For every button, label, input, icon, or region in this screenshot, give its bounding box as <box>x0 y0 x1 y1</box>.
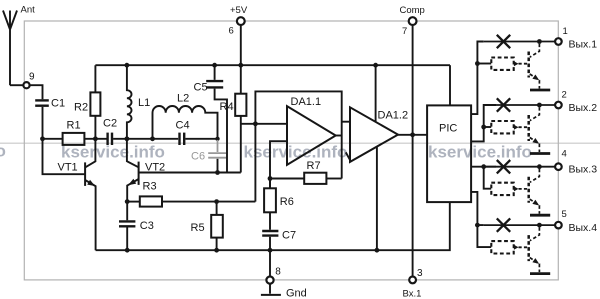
svg-text:1: 1 <box>563 26 568 37</box>
node rail C5 <box>212 63 217 68</box>
svg-text:Вых.3: Вых.3 <box>569 164 598 176</box>
svg-text:DA1.2: DA1.2 <box>378 109 409 121</box>
node R5/rail <box>214 248 219 253</box>
node channel 2 optobox tap <box>481 125 486 130</box>
svg-text:o: o <box>0 142 6 161</box>
node VT2 emitter / R3 / C3 <box>125 199 130 204</box>
wire PIC Vdd top pin <box>449 65 451 105</box>
resistor R7 <box>270 160 342 184</box>
svg-text:kservice.info: kservice.info <box>428 143 532 162</box>
node rail DA1.2 Vee <box>375 248 380 253</box>
wire Gnd branch <box>269 250 271 276</box>
node R7 left junction <box>268 176 273 181</box>
resistor R5 <box>191 202 223 251</box>
wire DA1.1 feedback top <box>255 91 341 201</box>
wire PIC pin to channel 1 <box>471 42 484 115</box>
svg-text:R4: R4 <box>220 101 234 113</box>
svg-text:9: 9 <box>29 72 35 83</box>
node rail L1 <box>125 63 130 68</box>
svg-text:Вых.1: Вых.1 <box>569 38 598 50</box>
wire DA1.2 output <box>398 134 427 136</box>
node R3/R5 <box>214 199 219 204</box>
svg-text:C6: C6 <box>191 151 205 163</box>
CENTERPART <box>95 5 450 299</box>
node tank right / C6 top <box>215 137 219 141</box>
wire DA1.2 Vee <box>376 147 378 251</box>
svg-text:5: 5 <box>562 209 567 220</box>
op-amp DA1.2 <box>350 107 408 162</box>
LEFTPART <box>3 5 255 253</box>
ground symbol <box>261 284 307 299</box>
node L1/VT2 collector <box>125 136 130 141</box>
wire PIC pin to channel 2 <box>471 105 496 141</box>
svg-text:R5: R5 <box>191 222 205 234</box>
svg-text:C2: C2 <box>103 117 117 129</box>
svg-text:PIC: PIC <box>439 122 457 134</box>
svg-text:R7: R7 <box>307 160 321 172</box>
node tank left <box>150 136 155 141</box>
channel 4 output <box>484 218 562 273</box>
node channel 3 optobox tap <box>481 164 486 169</box>
svg-text:L1: L1 <box>138 97 150 109</box>
IC PIC <box>427 105 471 202</box>
node rail C7/Gnd <box>268 248 273 253</box>
node C3/rail <box>125 248 130 253</box>
node DA1.2 output / Comp <box>410 132 415 137</box>
terminal output 1 <box>563 26 598 50</box>
svg-text:DA1.1: DA1.1 <box>291 96 322 108</box>
node channel 1 optobox tap <box>475 61 480 66</box>
wire R4 to DA1.1 input <box>241 123 287 125</box>
svg-text:+5V: +5V <box>230 5 248 16</box>
node 9 terminal <box>23 72 35 89</box>
wire VT1 base <box>43 139 86 174</box>
wire VT2 base row <box>139 172 241 174</box>
wire DA1.2 lower input stub <box>346 152 351 161</box>
svg-text:L2: L2 <box>177 93 189 105</box>
node C1/R1/base junction <box>40 136 45 141</box>
svg-text:Gnd: Gnd <box>286 287 307 299</box>
svg-text:7: 7 <box>402 26 407 37</box>
wire DA1.1 output stub <box>336 135 342 137</box>
channel 2 output <box>484 98 562 153</box>
svg-text:R6: R6 <box>280 196 294 208</box>
wire PIC pin to channel 4 <box>471 192 484 225</box>
svg-text:C4: C4 <box>176 120 190 132</box>
transistor VT2 <box>127 139 165 202</box>
svg-text:6: 6 <box>229 26 234 37</box>
wire C1 to row junction <box>42 107 44 139</box>
svg-text:C1: C1 <box>51 98 65 110</box>
wire antenna to node 9 <box>10 84 23 86</box>
node R1/R2/VT1 collector <box>93 136 98 141</box>
terminal Bx.1 pin 3 <box>403 268 424 299</box>
wire DA1.1 inv input <box>270 141 287 188</box>
node rail DA1.2 Vcc <box>373 63 378 68</box>
wire C2 to L1 bottom and tank <box>113 138 178 140</box>
node channel 4 wire tap <box>475 223 480 228</box>
terminal output 4 <box>562 209 598 234</box>
svg-text:R3: R3 <box>143 180 157 192</box>
svg-text:R2: R2 <box>74 102 88 114</box>
resistor R6 <box>264 179 294 213</box>
wire C4 to tank right <box>185 138 217 140</box>
antenna Ant <box>3 5 35 86</box>
inductor L1 <box>127 65 150 139</box>
capacitor C5 <box>194 65 228 172</box>
resistor R2 <box>74 65 100 139</box>
terminal output 3 <box>562 149 598 176</box>
wire tap to optobox 4 <box>477 225 491 247</box>
inductor L2 <box>153 93 218 139</box>
svg-text:Вх.1: Вх.1 <box>403 288 422 299</box>
wire junction to R1 <box>43 138 63 140</box>
svg-text:8: 8 <box>275 266 281 277</box>
wire tap to optobox 1 <box>477 63 491 65</box>
op-amp DA1.1 <box>287 96 336 165</box>
terminal Gnd pin 8 <box>266 266 281 283</box>
node rail +5V/R4 <box>238 63 243 68</box>
wire DA1.2 Vcc <box>375 65 377 121</box>
top +5V rail <box>95 64 450 66</box>
capacitor C7 <box>262 212 296 250</box>
svg-text:VT1: VT1 <box>58 162 78 174</box>
svg-text:R1: R1 <box>67 120 81 132</box>
wire Comp to Bx.1 <box>412 25 414 276</box>
resistor R1 <box>63 120 85 145</box>
node C6 bottom / VT2 base row <box>215 170 220 175</box>
svg-text:C5: C5 <box>194 82 208 94</box>
channel 1 output <box>484 35 562 90</box>
wire R1 to R2 junction <box>84 138 106 140</box>
bottom ground rail <box>96 202 450 250</box>
capacitor C1 <box>35 98 65 110</box>
svg-text:Вых.4: Вых.4 <box>569 222 598 234</box>
svg-text:3: 3 <box>417 268 423 279</box>
svg-text:C3: C3 <box>140 220 154 232</box>
wire tap to optobox 3 <box>484 167 492 189</box>
terminal Comp pin 7 <box>400 5 425 37</box>
capacitor C3 <box>119 202 154 251</box>
terminal output 2 <box>562 89 598 113</box>
WATERMARK <box>0 142 600 162</box>
resistor R4 <box>220 65 247 172</box>
capacitor C6 (gray) <box>191 140 226 173</box>
svg-text:2: 2 <box>562 89 567 100</box>
node DA1.1 noninv input <box>253 121 258 126</box>
svg-text:C7: C7 <box>282 229 296 241</box>
terminal +5V pin 6 <box>229 5 248 65</box>
resistor R3 <box>127 180 162 206</box>
svg-text:4: 4 <box>562 149 567 160</box>
capacitor C4 <box>176 120 190 146</box>
svg-text:Ant: Ant <box>21 5 36 16</box>
wire tap to optobox 2 <box>484 126 492 128</box>
svg-text:Comp: Comp <box>400 5 425 16</box>
OPAMPS <box>241 65 427 250</box>
wire R3 row to feedback column <box>162 201 255 203</box>
PICPART <box>427 65 471 202</box>
channel 3 output <box>484 160 562 215</box>
wire DA1.2 upper input stub <box>342 121 350 123</box>
wire PIC pin to channel 3 <box>471 166 496 168</box>
svg-text:Вых.2: Вых.2 <box>569 102 598 114</box>
capacitor C2 <box>103 117 117 145</box>
wire node 9 to C1 <box>30 85 43 99</box>
transistor VT1 <box>58 139 96 250</box>
